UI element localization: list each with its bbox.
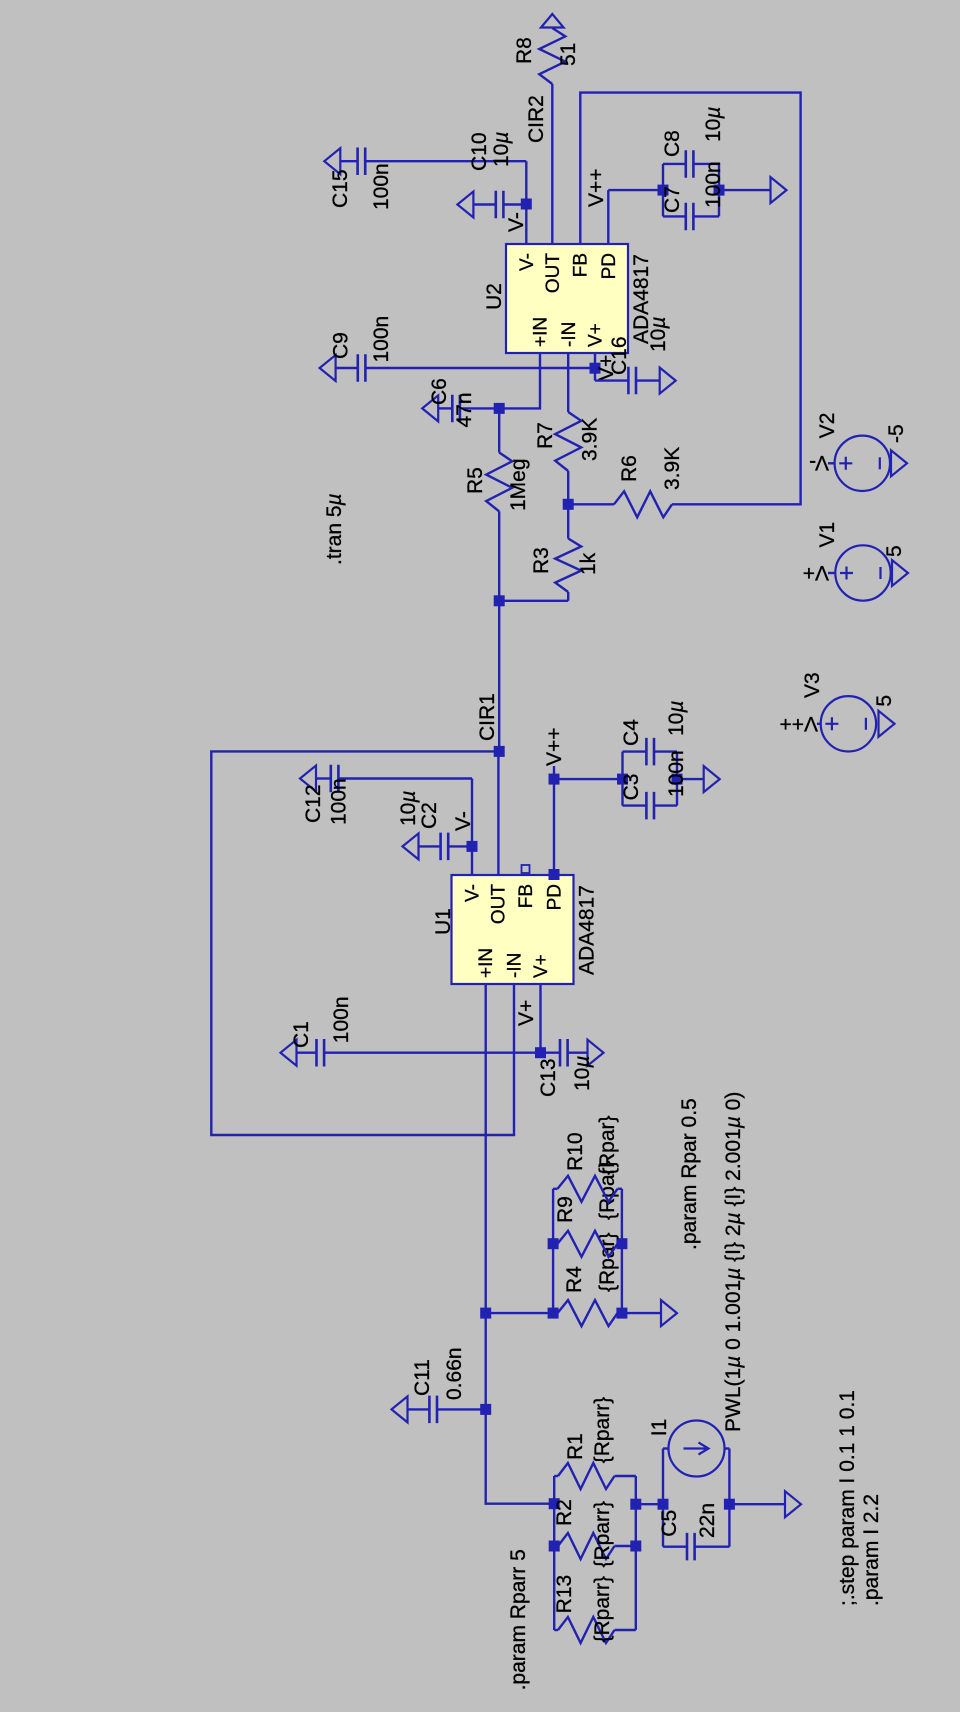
svg-text:.tran 5µ: .tran 5µ (323, 493, 346, 565)
wire R6 to U2 FB (580, 93, 800, 505)
svg-text:0.66n: 0.66n (443, 1347, 466, 1400)
svg-text:V+: V+ (586, 323, 607, 347)
wire C10 to node (503, 203, 526, 205)
junction V+ node U1 (535, 1047, 546, 1058)
junction C3/C4 bottom (672, 774, 683, 785)
svg-text:C13: C13 (537, 1058, 560, 1097)
junction C2/V- node (467, 841, 478, 852)
svg-text:OUT: OUT (543, 253, 564, 294)
wire V2 flag stub (828, 462, 835, 464)
wire R7 to U2 -IN (567, 353, 569, 412)
resistor R8 (539, 28, 565, 84)
svg-text:R10: R10 (564, 1132, 587, 1171)
wire to C16 (594, 368, 596, 380)
wire U2 OUT to R8 (551, 84, 553, 243)
ground at C12 (300, 766, 316, 792)
wire (663, 163, 686, 165)
wire V1 flag stub (828, 572, 835, 574)
wire Rpar trio top rail (552, 1189, 554, 1313)
wire J1 to R5 (498, 511, 500, 600)
svg-text:+IN: +IN (531, 317, 552, 347)
wire (618, 1312, 622, 1314)
wire to C12 (471, 779, 473, 847)
ground at C11 (392, 1396, 408, 1422)
wire (553, 1188, 557, 1190)
wire to ground (729, 1503, 785, 1505)
ground at C6 (422, 395, 438, 421)
svg-text:V+: V+ (515, 1000, 538, 1026)
junction C6 node (494, 403, 505, 414)
svg-text:V-: V- (517, 253, 538, 271)
svg-text:{Rpar}: {Rpar} (596, 1115, 619, 1175)
junction C11 tap (480, 1404, 491, 1415)
wire (553, 1312, 557, 1314)
junction Rpar trio tap (480, 1308, 491, 1319)
svg-text:V+: V+ (531, 954, 552, 978)
wire C3/C4 bottom rail (676, 752, 678, 806)
wire to C5 (662, 1504, 664, 1547)
svg-text:R6: R6 (618, 455, 641, 482)
wire U1 feedback loop to -IN (211, 751, 514, 1135)
wire node to U2 +IN (499, 353, 540, 408)
svg-text:10µ: 10µ (571, 1056, 594, 1091)
svg-text:ADA4817: ADA4817 (576, 885, 599, 975)
svg-text:100n: 100n (370, 163, 393, 210)
wire to C15 (525, 161, 527, 204)
wire (554, 1629, 558, 1631)
svg-text:C11: C11 (411, 1359, 434, 1396)
wire to C13 (541, 1051, 561, 1053)
wire C2 to ground (419, 845, 441, 847)
wire (618, 1243, 622, 1245)
capacitor C9 (358, 354, 366, 382)
wire trio to ground (622, 1312, 661, 1314)
svg-text:-IN: -IN (504, 953, 525, 978)
capacitor C15 (358, 148, 366, 176)
svg-text:.param Rpar 0.5: .param Rpar 0.5 (678, 1098, 701, 1250)
junction C7/C8 top (658, 185, 669, 196)
junction R2 bottom (630, 1541, 641, 1552)
wire (654, 750, 677, 752)
capacitor C4 (646, 738, 654, 766)
wire (654, 804, 677, 806)
junction C10/V- node (521, 199, 532, 210)
svg-text:V++: V++ (543, 727, 566, 766)
wire C7/C8 top rail (662, 164, 664, 217)
svg-text:1Meg: 1Meg (507, 458, 530, 511)
wire C15 rail (365, 160, 526, 162)
svg-text:{Rparr}: {Rparr} (591, 1576, 614, 1643)
ground at C7/C8 (771, 177, 787, 203)
resistor R4 (558, 1300, 618, 1326)
svg-text:C6: C6 (428, 378, 451, 405)
wire (554, 1475, 558, 1477)
op-amp U1 ADA4817 (452, 875, 574, 984)
wire (595, 379, 628, 381)
wire (554, 1545, 558, 1547)
svg-text:100n: 100n (330, 996, 353, 1043)
svg-text:10µ: 10µ (665, 701, 688, 736)
wire C1 rail (324, 1051, 540, 1053)
wire (623, 804, 647, 806)
svg-text:10µ: 10µ (397, 791, 420, 826)
wire C11 to trunk (437, 1408, 486, 1410)
svg-text:C15: C15 (329, 169, 352, 208)
wire C5 bottom (728, 1504, 730, 1547)
svg-text:C2: C2 (418, 802, 441, 829)
junction R2 top (549, 1541, 560, 1552)
capacitor C12 (331, 765, 339, 792)
wire PD to C7/C8 (608, 189, 663, 191)
svg-text:FB: FB (571, 253, 592, 277)
wire J3 to R7 (567, 471, 569, 504)
wire C1 to ground (297, 1051, 317, 1053)
junction V+ node U2 (590, 363, 601, 374)
ground at C10 (457, 192, 473, 218)
svg-text:100n: 100n (665, 750, 688, 797)
svg-text:C4: C4 (620, 719, 643, 746)
junction V++ node U1 (549, 774, 560, 785)
svg-text:R13: R13 (553, 1575, 576, 1614)
svg-text:PD: PD (545, 884, 566, 910)
svg-text:5: 5 (883, 545, 906, 557)
svg-text:.param I 2.2: .param I 2.2 (860, 1494, 883, 1606)
wire C9 rail (365, 367, 595, 369)
svg-text:R5: R5 (464, 467, 487, 494)
svg-text:{Rparr}: {Rparr} (591, 1501, 614, 1568)
wire CIR1 to J1 (498, 601, 500, 752)
wire (615, 1475, 636, 1477)
svg-text:R8: R8 (513, 37, 536, 64)
svg-text:V2: V2 (816, 413, 839, 439)
wire Rpar trio bottom rail (621, 1189, 623, 1313)
junction C3/C4 top (617, 774, 628, 785)
svg-text:-IN: -IN (559, 322, 580, 347)
resistor R13 (558, 1617, 615, 1643)
svg-text:V3: V3 (801, 672, 824, 698)
junction I1/C5 bottom node (724, 1499, 735, 1510)
svg-text:51: 51 (557, 43, 580, 66)
svg-text:V-: V- (463, 884, 484, 902)
wire U1 V+ pin (539, 985, 541, 1053)
svg-text:100n: 100n (370, 316, 393, 363)
wire R3 to J3 (567, 504, 569, 538)
svg-text:3.9K: 3.9K (661, 447, 684, 490)
wire (725, 1447, 730, 1449)
wire J3 to R6 (568, 503, 614, 505)
capacitor C10 (496, 191, 504, 218)
svg-text:10µ: 10µ (647, 317, 670, 352)
svg-text:I1: I1 (648, 1419, 671, 1437)
svg-text:100n: 100n (328, 778, 351, 825)
wire J1 down to R3 (499, 600, 568, 602)
wire to I1 (662, 1449, 664, 1505)
svg-text:PD: PD (599, 253, 620, 279)
wire C12 to ground (316, 777, 331, 779)
wire V++ stub (553, 766, 555, 779)
resistor R3 (555, 539, 581, 593)
wire (663, 215, 686, 217)
ground at C15 (324, 148, 340, 174)
svg-text:R2: R2 (553, 1499, 576, 1526)
ground at Rpar trio (661, 1300, 677, 1326)
wire (663, 1545, 687, 1547)
resistor R10 (558, 1176, 618, 1202)
capacitor C8 (686, 150, 694, 178)
wire C10 to ground (473, 203, 495, 205)
capacitor C1 (317, 1039, 325, 1067)
junction I1/C5 top node (658, 1499, 669, 1510)
junction J1 R3 tap (494, 595, 505, 606)
svg-text:V++: V++ (779, 712, 818, 735)
resistor R2 (558, 1533, 615, 1559)
svg-text:OUT: OUT (489, 884, 510, 925)
svg-text:3.9K: 3.9K (579, 418, 602, 461)
junction C7/C8 bottom (714, 185, 725, 196)
svg-text:;.step param I 0.1 1 0.1: ;.step param I 0.1 1 0.1 (836, 1390, 859, 1606)
wire (615, 1545, 636, 1547)
wire (623, 750, 647, 752)
svg-text:FB: FB (516, 884, 537, 908)
wire C13 to ground (568, 1051, 588, 1053)
svg-text:U1: U1 (432, 908, 455, 935)
wire R5 to C6 node (498, 408, 500, 452)
wire C16 to ground (636, 379, 660, 381)
svg-text:47n: 47n (453, 392, 476, 427)
wire U1 V- pin (471, 846, 473, 874)
wire C6 to node (462, 407, 499, 409)
op-amp U2 ADA4817 (506, 244, 628, 353)
svg-text:V1: V1 (816, 522, 839, 548)
junction bottom rail to I1 (630, 1499, 641, 1510)
svg-text:5: 5 (873, 695, 896, 707)
svg-text:V++: V++ (585, 168, 608, 207)
resistor R1 (558, 1463, 615, 1489)
svg-text:100n: 100n (702, 161, 725, 208)
resistor R5 (486, 453, 512, 512)
svg-text:R9: R9 (554, 1196, 577, 1223)
junction at U1 PD pin (549, 869, 560, 880)
junction R4 top (548, 1308, 559, 1319)
capacitor C3 (646, 792, 654, 820)
svg-text:V-: V- (809, 451, 829, 474)
svg-text:22n: 22n (696, 1503, 719, 1538)
wire (553, 1243, 557, 1245)
wire C15 to ground (340, 160, 357, 162)
wire to ground (677, 778, 704, 780)
svg-text:10µ: 10µ (490, 132, 513, 167)
wire (693, 163, 719, 165)
wire (618, 1188, 622, 1190)
wire (693, 215, 719, 217)
wire C12 rail (338, 777, 472, 779)
ground at V1 (892, 560, 908, 586)
output port arrow (541, 14, 564, 28)
wire U2 V- pin (525, 204, 527, 243)
svg-text:C8: C8 (661, 130, 684, 157)
wire C2 to node (448, 845, 472, 847)
wire to C3/C4 (554, 778, 623, 780)
capacitor C6 (452, 395, 460, 423)
svg-text:R3: R3 (530, 547, 553, 574)
wire U1 PD pin (553, 779, 555, 874)
wire C9 to ground (336, 367, 358, 369)
svg-text:U2: U2 (483, 283, 506, 310)
wire U1 OUT (497, 751, 499, 874)
current source I1 (669, 1421, 725, 1477)
resistor R6 (614, 491, 672, 517)
junction J3 (563, 499, 574, 510)
ground at V2 (891, 450, 907, 476)
wire R1-R2-R13 top rail (553, 1476, 555, 1630)
svg-text:V-: V- (505, 212, 528, 232)
svg-text:1k: 1k (577, 552, 600, 575)
svg-text:C12: C12 (302, 784, 325, 823)
junction trunk / R1 rail (549, 1498, 560, 1509)
capacitor C13 (560, 1039, 568, 1067)
wire input trunk to U1 +IN (486, 985, 555, 1504)
wire (615, 1629, 636, 1631)
capacitor C5 (687, 1533, 695, 1561)
svg-text:V-: V- (452, 811, 475, 831)
ground at C2 (403, 833, 419, 859)
svg-text:R1: R1 (564, 1433, 587, 1460)
svg-text:+IN: +IN (476, 948, 497, 978)
ground at I1 (785, 1491, 801, 1517)
svg-text:R4: R4 (563, 1266, 586, 1293)
wire C6 to ground (438, 407, 452, 409)
wire C7/C8 bottom rail (718, 164, 720, 217)
ground at C3/C4 (704, 766, 720, 792)
wire (567, 592, 569, 601)
svg-text:{Rparr}: {Rparr} (591, 1397, 614, 1464)
wire R1-R2-R13 bottom rail (635, 1476, 637, 1630)
wire rail to I1 node (636, 1503, 663, 1505)
svg-text:C5: C5 (658, 1510, 681, 1537)
ground at C16 (660, 368, 676, 394)
capacitor C16 (628, 367, 636, 395)
wire U2 V+ pin (594, 353, 596, 368)
capacitor C11 (429, 1396, 437, 1424)
svg-text:CIR1: CIR1 (476, 693, 499, 741)
U1 FB unconnected pin marker (522, 865, 530, 873)
capacitor C7 (686, 203, 694, 231)
wire trunk to Rpar trio (486, 1312, 553, 1314)
svg-text:C3: C3 (620, 774, 643, 801)
svg-text:PWL(1µ 0 1.001µ {I} 2µ {I} 2.0: PWL(1µ 0 1.001µ {I} 2µ {I} 2.001µ 0) (722, 1092, 745, 1432)
svg-text:R7: R7 (534, 422, 557, 449)
svg-text:10µ: 10µ (702, 107, 725, 142)
resistor R7 (555, 412, 581, 471)
junction R4 bottom (616, 1308, 627, 1319)
wire C11 to ground (408, 1408, 430, 1410)
wire U2 PD pin (607, 190, 609, 243)
svg-text:CIR2: CIR2 (525, 95, 548, 143)
ground at C13 (588, 1040, 604, 1066)
wire I1 to ground node (728, 1449, 730, 1505)
junction R9 bottom (616, 1238, 627, 1249)
svg-text:C16: C16 (608, 336, 631, 375)
svg-text:.param Rparr 5: .param Rparr 5 (507, 1549, 530, 1690)
wire V3 flag stub (817, 723, 821, 725)
svg-text:V+: V+ (803, 561, 829, 584)
wire to ground (719, 189, 771, 191)
junction node CIR1 (494, 746, 505, 757)
ground at C1 (281, 1040, 297, 1066)
resistor R9 (558, 1231, 618, 1257)
svg-text:C1: C1 (290, 1021, 313, 1048)
capacitor C2 (441, 833, 449, 861)
ground at C9 (320, 355, 336, 381)
wire C3/C4 top rail (621, 752, 623, 806)
wire (695, 1545, 730, 1547)
junction R9 top (548, 1238, 559, 1249)
svg-text:C10: C10 (468, 132, 491, 171)
svg-text:-5: -5 (885, 424, 908, 443)
svg-text:C9: C9 (330, 332, 353, 359)
wire (663, 1447, 669, 1449)
svg-text:C7: C7 (661, 186, 684, 213)
ground at V3 (879, 711, 895, 737)
